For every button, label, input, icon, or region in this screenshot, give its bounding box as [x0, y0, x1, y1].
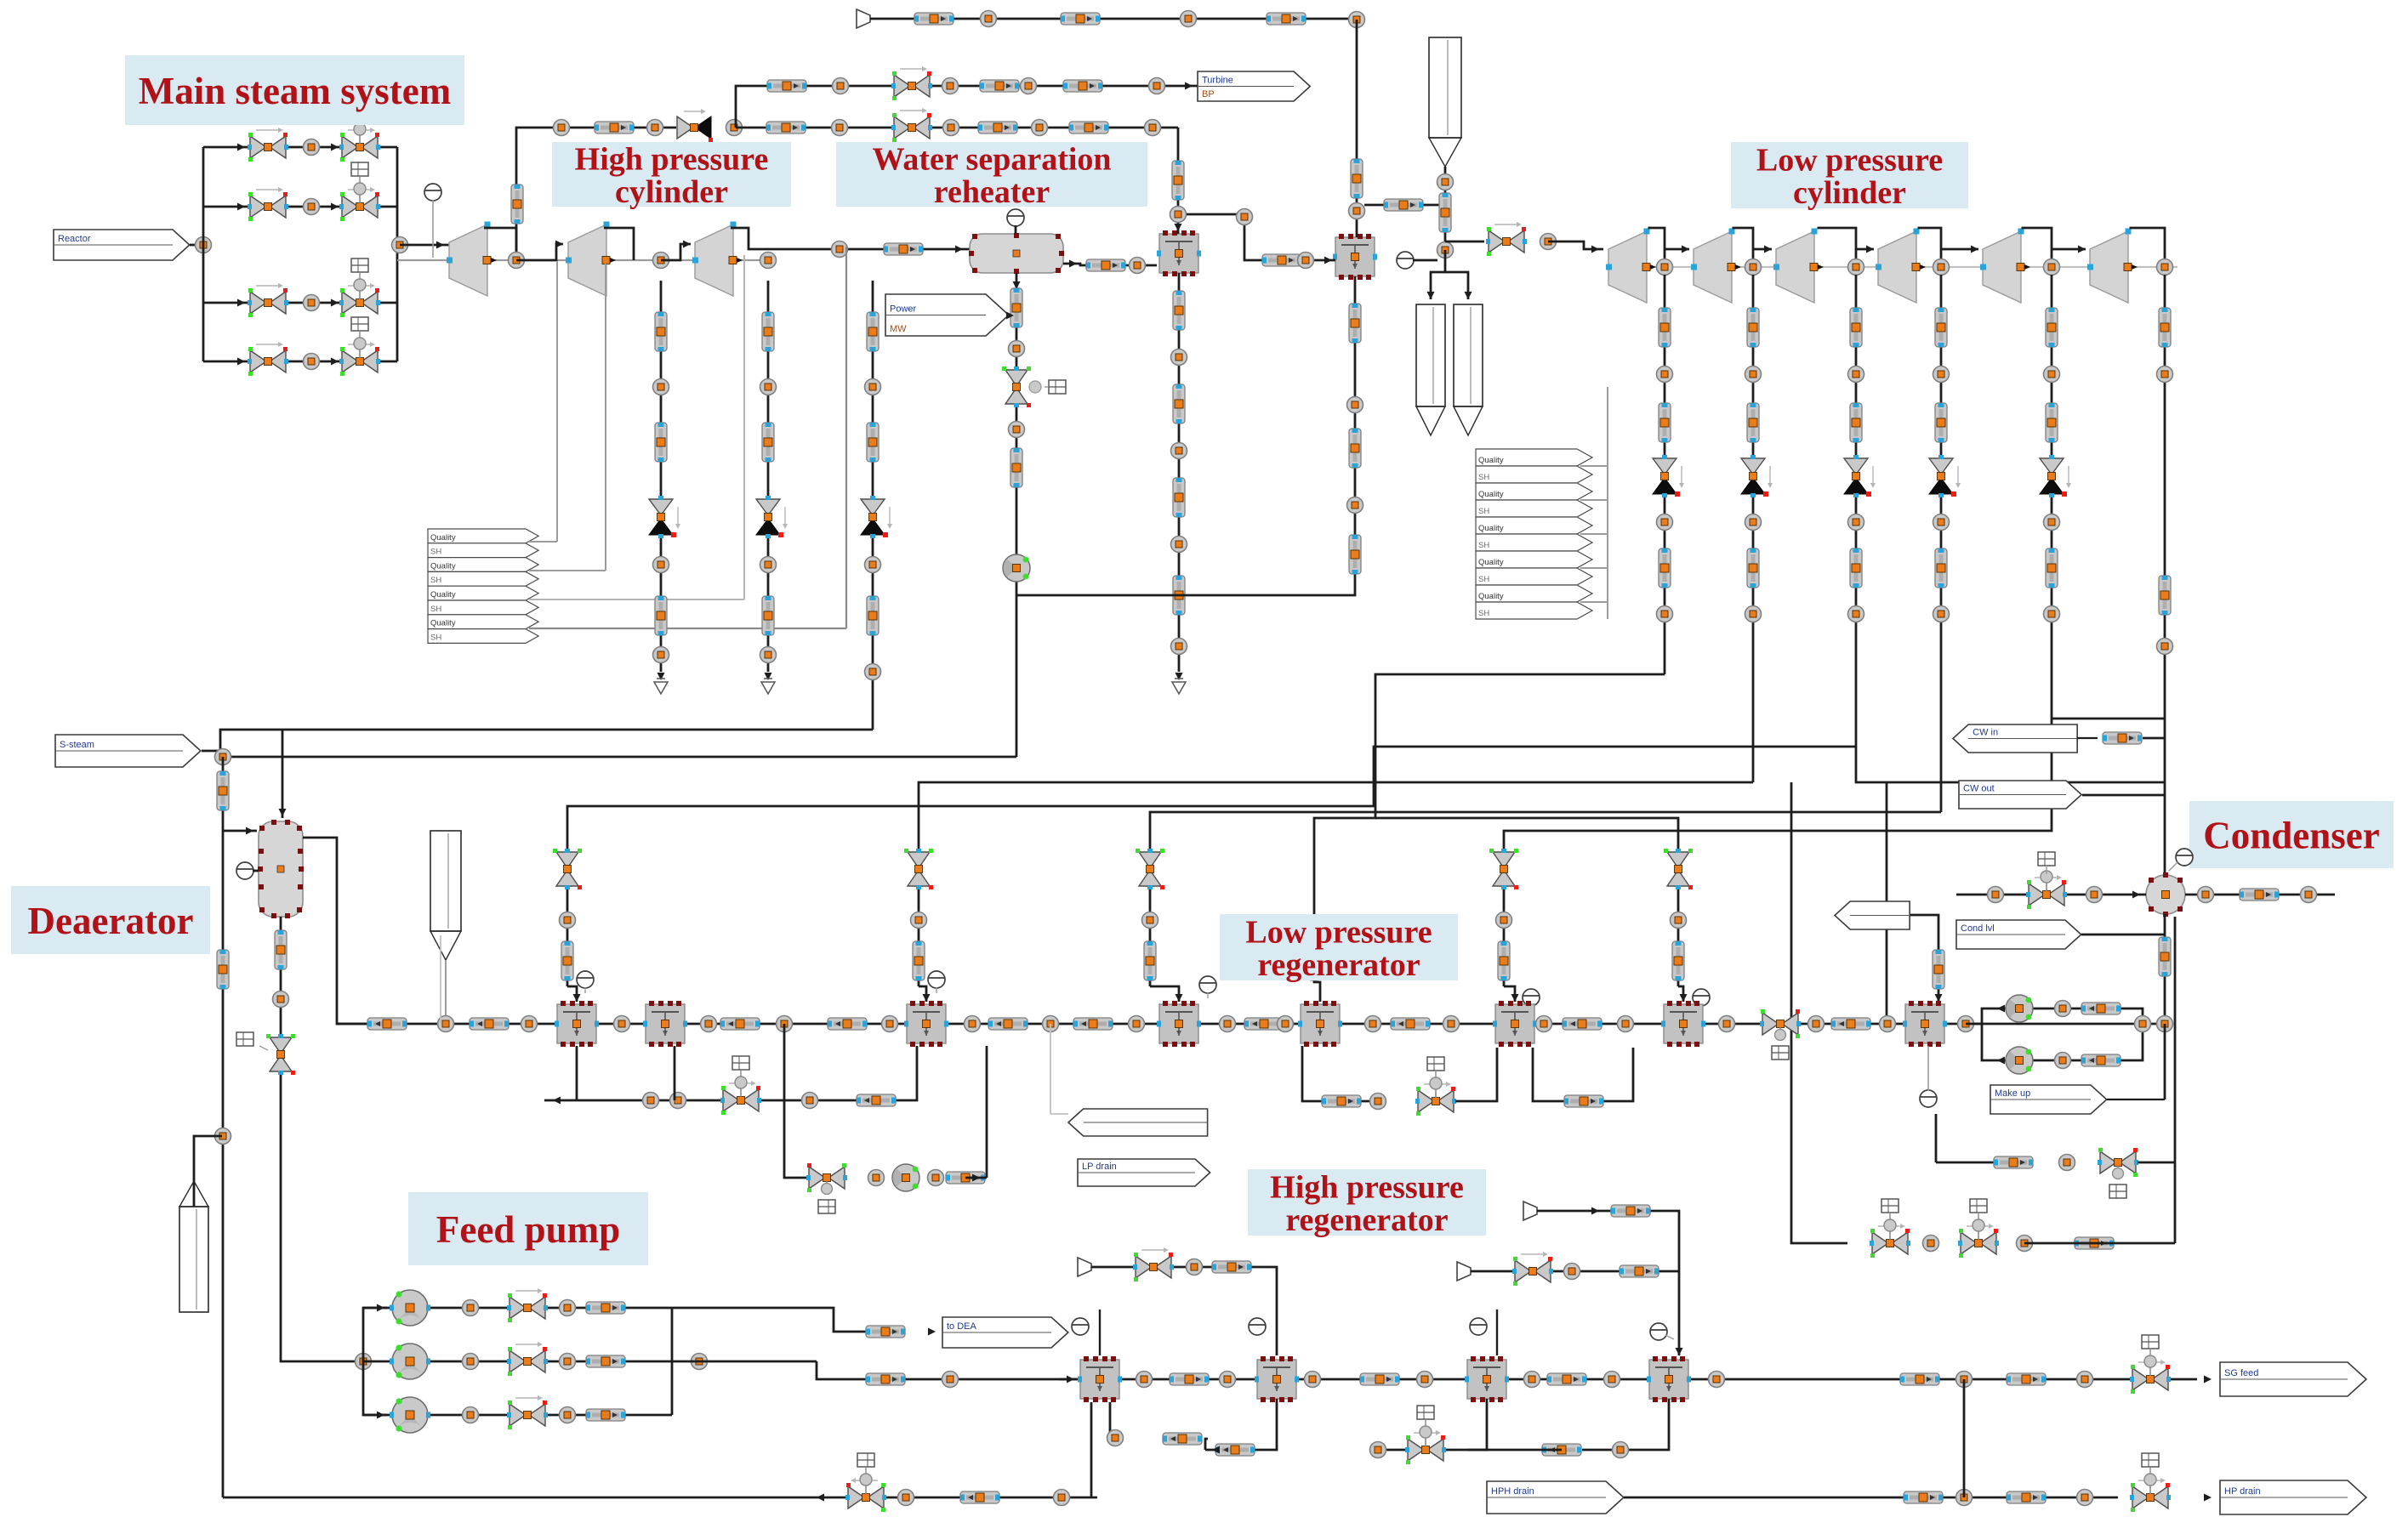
svg-text:cylinder: cylinder	[1793, 175, 1906, 211]
svg-text:Quality: Quality	[430, 561, 456, 571]
svg-text:SH: SH	[1478, 541, 1489, 550]
svg-text:Low pressure: Low pressure	[1756, 142, 1943, 178]
svg-text:SH: SH	[1478, 575, 1489, 584]
svg-text:CW out: CW out	[1963, 784, 1995, 794]
svg-text:High pressure: High pressure	[1270, 1169, 1464, 1205]
svg-text:Power: Power	[890, 304, 917, 315]
svg-text:Low pressure: Low pressure	[1245, 914, 1432, 950]
svg-text:Quality: Quality	[430, 590, 456, 599]
svg-text:to DEA: to DEA	[947, 1321, 977, 1332]
svg-text:cylinder: cylinder	[615, 174, 728, 210]
svg-text:Main steam system: Main steam system	[139, 70, 451, 112]
svg-text:Turbine: Turbine	[1202, 76, 1233, 86]
svg-text:Make up: Make up	[1995, 1088, 2030, 1099]
svg-text:Quality: Quality	[430, 533, 456, 543]
svg-text:Water separation: Water separation	[872, 141, 1111, 177]
svg-text:Quality: Quality	[1478, 490, 1504, 499]
svg-text:CW in: CW in	[1973, 728, 1998, 738]
svg-text:SH: SH	[430, 576, 441, 585]
svg-text:SH: SH	[430, 633, 441, 642]
svg-text:SH: SH	[1478, 609, 1489, 618]
svg-text:Quality: Quality	[430, 619, 456, 628]
svg-text:BP: BP	[1202, 89, 1215, 99]
svg-text:S-steam: S-steam	[60, 740, 94, 750]
svg-text:Quality: Quality	[1478, 592, 1504, 601]
svg-text:Quality: Quality	[1478, 558, 1504, 567]
svg-text:MW: MW	[890, 324, 907, 334]
svg-text:Cond lvl: Cond lvl	[1961, 923, 1995, 934]
svg-text:reheater: reheater	[934, 174, 1050, 210]
svg-text:SH: SH	[1478, 473, 1489, 482]
svg-text:Deaerator: Deaerator	[28, 900, 194, 942]
svg-text:SH: SH	[430, 548, 441, 557]
svg-text:SH: SH	[1478, 507, 1489, 516]
svg-text:SG feed: SG feed	[2224, 1368, 2258, 1378]
svg-text:regenerator: regenerator	[1285, 1202, 1448, 1238]
svg-text:Reactor: Reactor	[58, 234, 91, 244]
svg-text:HP drain: HP drain	[2224, 1486, 2261, 1497]
svg-text:Condenser: Condenser	[2203, 815, 2380, 857]
svg-text:LP drain: LP drain	[1082, 1162, 1117, 1172]
svg-text:SH: SH	[430, 605, 441, 614]
svg-text:High pressure: High pressure	[575, 141, 769, 177]
svg-text:Quality: Quality	[1478, 524, 1504, 533]
svg-text:Feed pump: Feed pump	[436, 1208, 620, 1251]
svg-text:HPH drain: HPH drain	[1491, 1486, 1534, 1497]
svg-text:regenerator: regenerator	[1257, 947, 1420, 983]
svg-text:Quality: Quality	[1478, 456, 1504, 465]
